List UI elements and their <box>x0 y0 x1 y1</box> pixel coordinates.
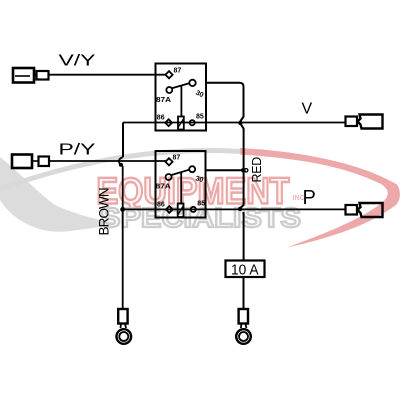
svg-text:87A: 87A <box>156 184 171 191</box>
svg-text:85: 85 <box>197 201 205 208</box>
svg-text:RED: RED <box>250 157 264 183</box>
svg-text:87: 87 <box>174 68 182 75</box>
svg-text:P: P <box>303 187 316 209</box>
svg-text:86: 86 <box>157 202 165 209</box>
svg-text:87A: 87A <box>156 97 171 104</box>
svg-text:87: 87 <box>173 155 181 162</box>
svg-text:10 A: 10 A <box>231 262 259 278</box>
svg-text:P/Y: P/Y <box>59 142 96 159</box>
svg-text:V/Y: V/Y <box>59 53 96 70</box>
svg-text:86: 86 <box>157 115 165 122</box>
svg-text:BROWN: BROWN <box>97 188 112 235</box>
svg-text:V: V <box>302 101 313 118</box>
svg-text:85: 85 <box>196 114 204 121</box>
